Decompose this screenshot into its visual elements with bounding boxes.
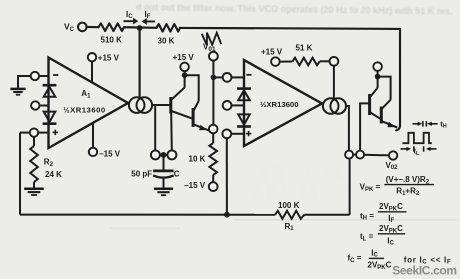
node A1 inverting input pin [31, 72, 39, 80]
wire pin to U2 diode middle [232, 104, 245, 106]
waveform icon triangle output [202, 33, 221, 46]
wire bottom rail up to V02 pin1 [349, 159, 351, 215]
svg-text:30 K: 30 K [158, 37, 175, 46]
node V02 output terminal [389, 151, 397, 159]
ground (C) [154, 189, 173, 195]
wire R510K to junction to R30K [124, 26, 157, 29]
node +15V buffer pin [180, 63, 189, 72]
wire +15V pin to collector rails [185, 71, 199, 101]
formula tH [360, 202, 407, 224]
wire A1 bottom edge to -15V [92, 123, 94, 148]
wire base-bar column down to pin [170, 114, 173, 151]
svg-text:V02: V02 [386, 161, 399, 171]
svg-text:10 K: 10 K [189, 154, 206, 163]
wire bias pin down to current source [333, 66, 335, 99]
svg-text:fC =: fC = [348, 254, 362, 264]
svg-text:+15 V: +15 V [173, 53, 195, 62]
svg-text:tH: tH [440, 120, 447, 130]
transistor Q3 (right Darlington first) [370, 88, 382, 120]
junction dot bottom rail [224, 212, 230, 218]
node A1 -15V supply pin [89, 148, 97, 156]
wire U2 output right and down [346, 106, 349, 150]
wire pin2 up to buffer base [360, 103, 369, 150]
svg-text:IC: IC [387, 236, 394, 246]
wire left loop vertical [19, 133, 21, 215]
wire between C pins [160, 154, 168, 156]
formula tL [360, 224, 405, 247]
node V01 terminal [209, 52, 218, 61]
current source symbol A1 output [129, 97, 152, 113]
wire top rail to right corner [180, 28, 400, 29]
svg-text:V01: V01 [203, 43, 216, 53]
svg-text:IC: IC [126, 10, 133, 20]
wire A1 output to buffer base [152, 104, 170, 106]
svg-text:R1+R2: R1+R2 [396, 187, 420, 197]
node Vc terminal [78, 23, 87, 32]
wire pin to A1 minus [39, 75, 48, 77]
resistor 510K [99, 23, 124, 31]
svg-text:−15 V: −15 V [99, 149, 121, 158]
svg-text:+15 V: +15 V [98, 54, 120, 63]
svg-text:R2: R2 [44, 158, 54, 168]
svg-text:C: C [174, 169, 180, 178]
wire V01 column [212, 61, 214, 125]
svg-text:510 K: 510 K [101, 35, 123, 44]
svg-text:IC: IC [371, 248, 378, 258]
node emitter/10K pin [209, 125, 218, 134]
svg-text:½XR13600: ½XR13600 [63, 105, 105, 114]
svg-text:2VPKC: 2VPKC [379, 202, 403, 212]
node op2 inverting input pin [223, 73, 232, 82]
svg-text:IF: IF [145, 10, 151, 20]
arrow Q4 emitter [388, 122, 396, 128]
U2 plus mark [246, 131, 251, 136]
A1 minus mark [53, 74, 58, 76]
wire bias drop from junction to A1 output mirror [139, 28, 141, 97]
svg-text:VPK =: VPK = [360, 183, 381, 193]
diode D1 (A1 upper) [43, 85, 57, 97]
A1 plus mark [53, 130, 58, 135]
wire output node down to C pin [154, 105, 156, 151]
svg-text:2VPKC: 2VPKC [368, 261, 392, 271]
diode D4 (U2 lower) [237, 114, 251, 126]
resistor 10K [209, 133, 217, 182]
resistor R1 100K [275, 211, 304, 219]
resistor 51K [292, 58, 319, 66]
wire pin to diode chain middle [40, 105, 49, 107]
wire pin to op2 minus [232, 76, 245, 78]
wire V01 to op2 minus pin [213, 76, 222, 78]
arrow Q2 emitter [199, 125, 207, 131]
U2 minus mark [246, 74, 251, 76]
junction dot V01 node [211, 75, 217, 81]
junction dot buffer supply [182, 72, 188, 78]
formula Vpk [360, 175, 434, 197]
arrow If [142, 18, 155, 25]
node -15V pin below 10K [209, 182, 218, 191]
wire U2 plus pin down to bottom rail [226, 138, 228, 214]
node U2 diode-bias pin [223, 101, 232, 110]
capacitor C3 50pF [153, 155, 174, 188]
svg-text:51 K: 51 K [296, 44, 313, 53]
arrow Ic [124, 18, 139, 25]
waveform icon square wave [402, 133, 431, 143]
transistor Q4 (right Darlington second) [381, 100, 397, 128]
transistor Q2 (left Darlington second) [193, 101, 209, 131]
faint background smudges [110, 219, 458, 230]
svg-text:½XR13600: ½XR13600 [260, 100, 298, 109]
junction dot top rail [137, 25, 143, 31]
resistor R2 24K [30, 137, 38, 188]
wire pin to A1 plus [38, 132, 48, 134]
node A1 non-inverting input pin [30, 128, 38, 136]
ground (R2) [24, 189, 44, 195]
svg-text:tH =: tH = [360, 211, 374, 221]
annotation tL [401, 146, 437, 151]
node U2 non-inverting pin [222, 129, 231, 138]
wire pin2 to V02 terminal [364, 154, 389, 157]
svg-text:R1: R1 [285, 222, 295, 232]
svg-text:SeekIC.com: SeekIC.com [392, 264, 457, 278]
svg-text:50 pF: 50 pF [131, 169, 152, 178]
node A1 +15V supply pin [88, 53, 96, 61]
transistor Q1 (left Darlington first) [171, 88, 193, 119]
annotation tH [413, 121, 438, 126]
node U2 bias pin [330, 57, 339, 66]
node +15V pin for 51K [271, 57, 280, 66]
svg-text:VC: VC [64, 22, 75, 33]
node V02 pin 2 [356, 151, 364, 159]
svg-text:tL =: tL = [360, 232, 374, 242]
faint ghost shapes mid page [255, 163, 348, 205]
svg-text:−15 V: −15 V [184, 181, 206, 190]
capacitor C pins [151, 150, 177, 159]
svg-text:2VPKC: 2VPKC [379, 224, 403, 234]
op-amp U2 half XR13600 [244, 60, 322, 146]
wire 51K to bias pin [320, 60, 330, 62]
ground (top-left input) [10, 76, 30, 95]
current source symbol U2 output [323, 98, 346, 114]
svg-text:IF: IF [388, 214, 394, 224]
svg-text:tL: tL [414, 147, 421, 157]
faint background ghost text top [136, 2, 453, 16]
wire between V02 pins [353, 154, 356, 156]
svg-text:100 K: 100 K [278, 201, 300, 210]
diode D3 (U2 upper) [237, 89, 251, 101]
wire R1 to right corner [304, 214, 349, 216]
wire pin left to feedback loop [20, 132, 30, 134]
wire pin to U2 plus [231, 133, 244, 135]
op-amp A1 [49, 58, 129, 149]
node A1 diode-bias pin [31, 101, 39, 109]
svg-text:A1: A1 [81, 89, 91, 99]
node right buffer supply pin [373, 62, 382, 71]
svg-text:24 K: 24 K [45, 170, 62, 179]
formula fC [348, 248, 452, 271]
wire +15V to A1 top edge [91, 61, 93, 82]
node V02 pin 1 [345, 151, 353, 159]
wire supply pin to collectors [378, 71, 391, 100]
junction dot right buffer supply [375, 74, 381, 80]
wire pin to 51K [280, 61, 293, 63]
wire right vertical drop with hook [396, 29, 400, 130]
wire Vc to R 510K [87, 26, 99, 28]
svg-text:+15 V: +15 V [261, 48, 283, 57]
bottom rail wire [20, 214, 275, 216]
diode D2 (A1 lower) [43, 112, 57, 124]
junction dot C node [161, 152, 167, 158]
resistor 30K [157, 24, 180, 32]
